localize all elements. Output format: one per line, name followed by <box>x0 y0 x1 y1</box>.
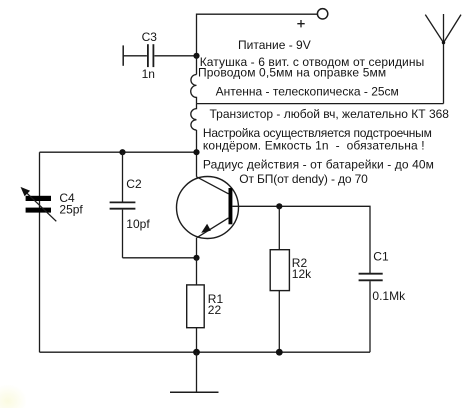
wire: base to bias node and over to C1 <box>232 206 370 273</box>
svg-text:1n: 1n <box>142 67 155 81</box>
wire: left tank rail horizontal (tank top) <box>40 151 197 153</box>
wire: coil bottom down to tank junction and transistor collector <box>196 130 198 177</box>
battery + terminal <box>317 9 327 19</box>
resistor R1 <box>187 285 205 328</box>
svg-text:0.1Mk: 0.1Mk <box>372 289 406 303</box>
ground symbol <box>170 352 219 392</box>
wire: C2 bottom to emitter node <box>123 257 197 259</box>
wire: R1 bottom to ground rail <box>196 328 198 353</box>
node: junction C3 / supply rail <box>193 53 199 59</box>
transistor VT1 <box>177 177 239 239</box>
wire: ground rail (bottom) <box>40 351 371 353</box>
inductor L1 coil (4 turns, tapped) <box>191 75 197 131</box>
svg-text:C2: C2 <box>126 177 142 191</box>
svg-text:кондёром. Емкость 1n - обяза: кондёром. Емкость 1n - обязательна ! <box>203 138 425 152</box>
node: junction tank rail / C2 top <box>119 149 125 155</box>
plus sign <box>297 20 304 27</box>
resistor R2 <box>270 250 289 291</box>
svg-text:Транзистор - любой вч, желател: Транзистор - любой вч, желательно КТ 368 <box>210 107 450 121</box>
svg-text:12k: 12k <box>292 267 312 281</box>
svg-text:22: 22 <box>208 303 222 317</box>
wire: from C3 junction down to coil top <box>196 56 198 75</box>
wire: base node to R2 top <box>278 206 280 249</box>
wire: emitter down to emitter node <box>196 238 198 258</box>
svg-text:Радиус действия - от батарейки: Радиус действия - от батарейки - до 40м <box>203 158 434 172</box>
capacitor C1 <box>359 274 383 353</box>
node: junction ground rail / R2 <box>276 349 283 356</box>
node: junction emitter / C2 / R1 <box>193 255 199 261</box>
variable capacitor C4 <box>21 187 57 221</box>
wire: R2 bottom to ground rail <box>278 291 280 353</box>
svg-text:10pf: 10pf <box>126 217 150 231</box>
svg-text:Проводом 0,5мм на оправке 5мм: Проводом 0,5мм на оправке 5мм <box>198 66 386 80</box>
node: junction tank rail / collector line <box>193 149 199 155</box>
node: junction base / R2 / C1 <box>276 203 282 209</box>
svg-text:От БП(от dendy) - до 70: От БП(от dendy) - до 70 <box>239 172 368 186</box>
capacitor C2 <box>110 152 136 258</box>
node: junction ground rail / R1 / ground stub <box>193 349 200 356</box>
wire: positive supply rail (collector node up and right to battery terminal) <box>197 14 318 56</box>
svg-text:Антенна - телескопическа - 25с: Антенна - телескопическа - 25см <box>216 84 399 98</box>
wire: coil tap to antenna <box>197 103 444 105</box>
svg-text:25pf: 25pf <box>59 202 83 216</box>
svg-text:C1: C1 <box>373 250 389 264</box>
svg-text:Питание - 9V: Питание - 9V <box>238 38 311 52</box>
wire: left rail vertical (through C4) <box>39 152 41 352</box>
wire: emitter node to R1 top <box>196 258 198 285</box>
capacitor C3 (antenna input coupling) <box>123 44 196 67</box>
svg-text:C3: C3 <box>142 30 158 44</box>
antenna ANT (telescopic) <box>425 14 461 104</box>
